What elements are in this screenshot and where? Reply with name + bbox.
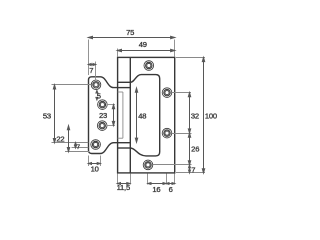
dim 7 bottom-right [189,165,191,173]
knuckle line [129,57,131,172]
dim 16 [148,183,166,185]
svg-text:7: 7 [191,166,195,175]
dim 6 [166,183,175,185]
ext 7 top right (hole1 centre) [95,62,97,80]
ext 16/6 shared [166,174,168,185]
svg-text:32: 32 [191,112,199,121]
dim 32 [188,93,190,134]
ext 10 right [100,156,102,167]
svg-text:16: 16 [152,185,160,194]
dim 49 [117,49,175,51]
dim 7 top-left [88,64,96,66]
ext 23 top (hole2 centre) [107,104,115,106]
ext 49 left [117,49,119,57]
dim 75 [88,36,175,38]
ext 75/49 right [174,40,176,57]
ext 11,5 left [117,174,119,185]
ext 11,5 right (pin axis) [130,174,132,185]
plate hole top [144,61,154,71]
ext 23 bottom (hole3 centre) [107,125,115,127]
ext 32/26 (hole R2 centre) [172,133,192,135]
plate hole right upper [162,88,172,98]
svg-text:26: 26 [191,145,199,154]
dim 48 [135,88,137,142]
svg-text:100: 100 [205,112,217,121]
ext 7bl bottom [72,147,89,149]
ext 53 top (hole1 centre) [52,84,92,86]
notch lines (faint) [118,92,123,138]
dim 53 [53,85,55,143]
svg-text:53: 53 [43,111,51,120]
notch horizontal bottom [118,137,123,139]
fold line top 2 [118,87,131,89]
svg-text:6: 6 [169,185,173,194]
plate hole right lower [162,128,172,138]
ext 32 top (hole R1 centre) [172,92,191,94]
dim 22 [67,126,69,152]
dim 23 [112,105,114,126]
svg-text:48: 48 [138,112,146,121]
fold line top 1 [118,81,131,83]
notch horizontal top [118,91,123,93]
svg-text:11,5: 11,5 [117,183,130,192]
ext 16 left (hole B centre) [147,174,149,185]
small leaf outline (left) [89,77,118,154]
leaf hole 4 [91,140,101,150]
svg-text:22: 22 [56,135,64,144]
leaf hole 2 [98,100,108,110]
svg-text:10: 10 [91,165,99,174]
svg-text:7: 7 [76,144,80,151]
leaf hole 3 [97,121,107,131]
ext 6 right [174,174,176,185]
svg-text:23: 23 [99,111,107,120]
dim 5 leader [96,90,98,100]
ext 75 left / leaf edge up [88,40,90,76]
plate (large leaf) rectangle [118,57,175,172]
dim 26 [188,133,190,165]
dim 7 bottom-left [75,143,77,149]
fold line bottom 2 [118,147,131,149]
dim 11,5 [117,183,130,185]
plate hole bottom [143,160,153,170]
ext 100 bottom / 7br bottom [176,172,205,174]
notch vertical [122,92,124,138]
ext 10 left / leaf edge down [88,156,90,167]
dim 10 [88,163,100,165]
ext 22 bottom [65,151,90,153]
leaf hole 1 [91,80,101,90]
ext 53 bottom / 7bl top [52,142,89,144]
ext 26/7br (hole B centre) [153,164,192,166]
inner folded-leaf contour on plate [130,75,159,156]
svg-text:7: 7 [89,66,93,75]
ext 100 top [176,57,205,59]
svg-text:75: 75 [126,28,134,37]
fold line bottom 1 [118,142,131,144]
svg-text:49: 49 [139,40,147,49]
svg-text:5: 5 [97,92,101,101]
dim 100 [202,57,204,173]
